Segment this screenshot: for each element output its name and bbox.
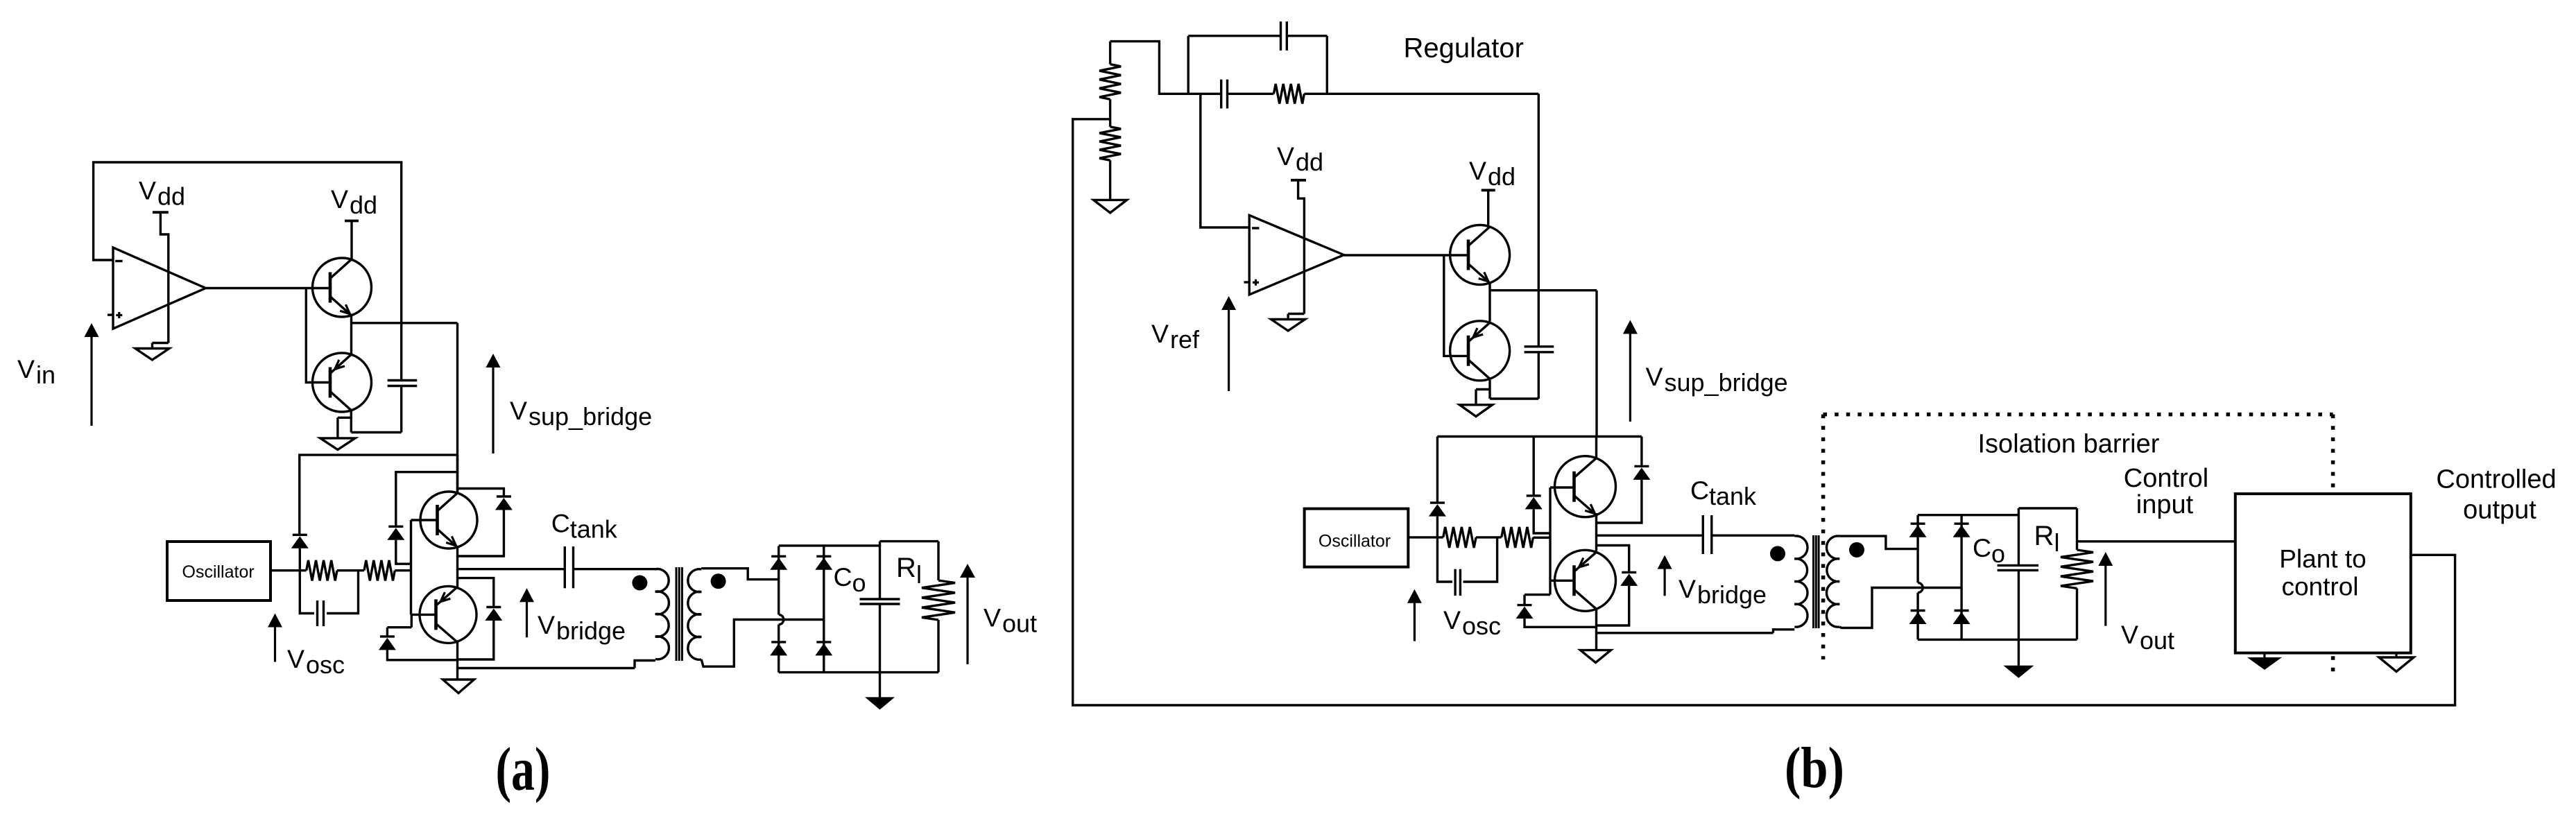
svg-text:Oscillator: Oscillator bbox=[1319, 532, 1391, 551]
svg-text:in: in bbox=[36, 361, 55, 389]
svg-text:V: V bbox=[1443, 605, 1461, 634]
svg-text:dd: dd bbox=[1488, 162, 1515, 191]
svg-text:C: C bbox=[1690, 476, 1709, 505]
svg-text:dd: dd bbox=[350, 191, 377, 219]
svg-text:(b): (b) bbox=[1785, 736, 1844, 800]
svg-text:V: V bbox=[1646, 362, 1663, 391]
svg-text:osc: osc bbox=[1462, 612, 1501, 640]
svg-text:C: C bbox=[551, 508, 570, 537]
svg-text:o: o bbox=[1991, 539, 2005, 568]
svg-text:tank: tank bbox=[1709, 482, 1757, 510]
svg-text:l: l bbox=[2054, 528, 2060, 557]
svg-text:V: V bbox=[1151, 319, 1169, 348]
svg-text:ref: ref bbox=[1170, 325, 1200, 354]
svg-text:sup_bridge: sup_bridge bbox=[529, 402, 652, 431]
svg-text:Oscillator: Oscillator bbox=[182, 562, 255, 582]
svg-text:dd: dd bbox=[157, 182, 185, 211]
svg-text:Regulator: Regulator bbox=[1404, 33, 1524, 64]
svg-text:Control: Control bbox=[2124, 464, 2209, 493]
svg-text:osc: osc bbox=[306, 650, 345, 679]
svg-text:V: V bbox=[510, 396, 527, 425]
svg-text:control: control bbox=[2281, 573, 2358, 601]
svg-text:V: V bbox=[17, 354, 35, 383]
svg-text:R: R bbox=[2034, 521, 2054, 551]
svg-text:V: V bbox=[2121, 620, 2138, 649]
svg-text:V: V bbox=[1469, 156, 1486, 185]
svg-text:out: out bbox=[1002, 610, 1037, 638]
svg-text:tank: tank bbox=[570, 515, 618, 543]
svg-text:V: V bbox=[1277, 141, 1294, 171]
svg-text:bridge: bridge bbox=[556, 616, 626, 645]
svg-text:l: l bbox=[916, 560, 922, 589]
svg-text:bridge: bridge bbox=[1697, 580, 1767, 609]
svg-text:Controlled: Controlled bbox=[2436, 465, 2556, 494]
svg-text:Isolation barrier: Isolation barrier bbox=[1978, 429, 2160, 458]
svg-text:V: V bbox=[538, 610, 555, 639]
svg-text:V: V bbox=[287, 644, 304, 673]
svg-text:V: V bbox=[331, 184, 348, 214]
svg-text:V: V bbox=[984, 603, 1001, 632]
svg-text:input: input bbox=[2136, 490, 2194, 519]
svg-text:R: R bbox=[896, 553, 916, 583]
svg-text:Plant to: Plant to bbox=[2279, 544, 2366, 573]
svg-text:V: V bbox=[139, 176, 156, 205]
svg-text:C: C bbox=[1973, 533, 1991, 562]
svg-text:(a): (a) bbox=[496, 736, 551, 804]
svg-text:out: out bbox=[2140, 626, 2174, 655]
svg-text:output: output bbox=[2463, 495, 2536, 524]
svg-text:dd: dd bbox=[1296, 148, 1323, 176]
svg-text:V: V bbox=[1678, 574, 1696, 603]
svg-text:o: o bbox=[852, 569, 866, 597]
svg-text:C: C bbox=[834, 562, 852, 591]
svg-text:sup_bridge: sup_bridge bbox=[1665, 368, 1788, 397]
